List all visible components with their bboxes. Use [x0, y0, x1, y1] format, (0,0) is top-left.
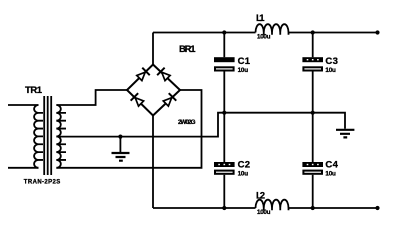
svg-text:C3: C3: [325, 56, 338, 67]
svg-text:100u: 100u: [257, 34, 271, 41]
svg-text:2W02G: 2W02G: [178, 119, 196, 126]
svg-text:100u: 100u: [257, 209, 271, 216]
svg-text:L2: L2: [256, 191, 265, 202]
svg-text:10u: 10u: [325, 67, 336, 74]
svg-text:10u: 10u: [238, 171, 249, 178]
svg-text:L1: L1: [256, 13, 265, 24]
svg-text:C4: C4: [325, 160, 338, 171]
svg-text:10u: 10u: [238, 67, 249, 74]
svg-text:BR1: BR1: [179, 44, 196, 55]
svg-text:TRAN-2P2S: TRAN-2P2S: [24, 180, 61, 186]
svg-text:C1: C1: [238, 56, 251, 67]
svg-text:C2: C2: [238, 160, 251, 171]
svg-text:TR1: TR1: [25, 85, 43, 96]
svg-text:10u: 10u: [325, 171, 336, 178]
